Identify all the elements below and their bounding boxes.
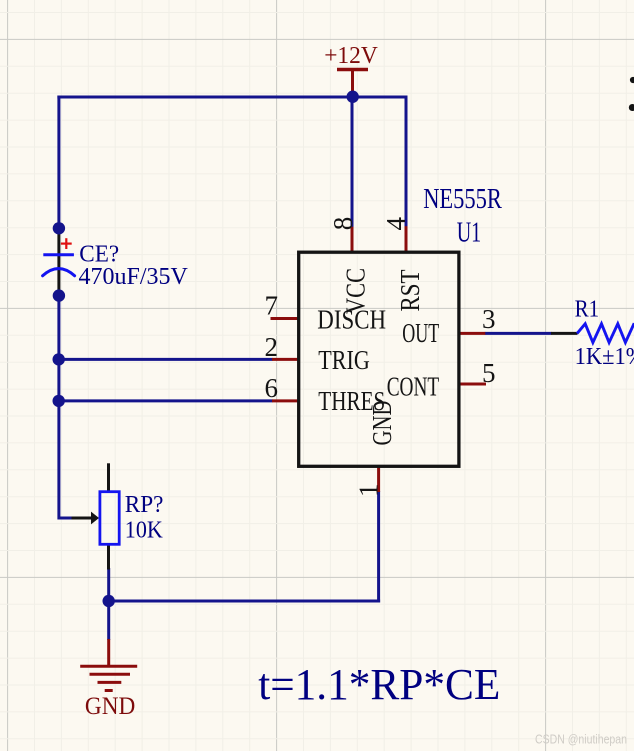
svg-text:3: 3 <box>482 304 496 334</box>
svg-text:8: 8 <box>328 217 358 231</box>
svg-text:t=1.1*RP*CE: t=1.1*RP*CE <box>258 660 500 709</box>
svg-text:6: 6 <box>265 373 279 403</box>
svg-text:1K±1%: 1K±1% <box>575 344 634 370</box>
svg-text:+12V: +12V <box>324 43 378 69</box>
svg-text:NE555R: NE555R <box>423 184 502 215</box>
svg-text:GND: GND <box>367 401 397 446</box>
svg-text:470uF/35V: 470uF/35V <box>79 264 189 290</box>
svg-text:7: 7 <box>265 291 279 321</box>
svg-text:1: 1 <box>353 484 383 498</box>
svg-text:GND: GND <box>85 693 135 720</box>
svg-text:U1: U1 <box>457 217 482 248</box>
svg-text:VCC: VCC <box>341 268 371 314</box>
svg-text:R1: R1 <box>575 297 600 323</box>
svg-text:OUT: OUT <box>402 318 439 348</box>
svg-text:RST: RST <box>395 269 425 311</box>
svg-text:10K: 10K <box>125 517 164 543</box>
svg-text:2: 2 <box>265 332 279 362</box>
svg-text:5: 5 <box>482 358 496 388</box>
svg-text:RP?: RP? <box>125 492 164 518</box>
svg-text:CONT: CONT <box>387 372 440 402</box>
svg-text:CSDN @niutihepan: CSDN @niutihepan <box>535 733 627 747</box>
svg-text:4: 4 <box>381 217 411 231</box>
svg-text:TRIG: TRIG <box>318 345 370 375</box>
